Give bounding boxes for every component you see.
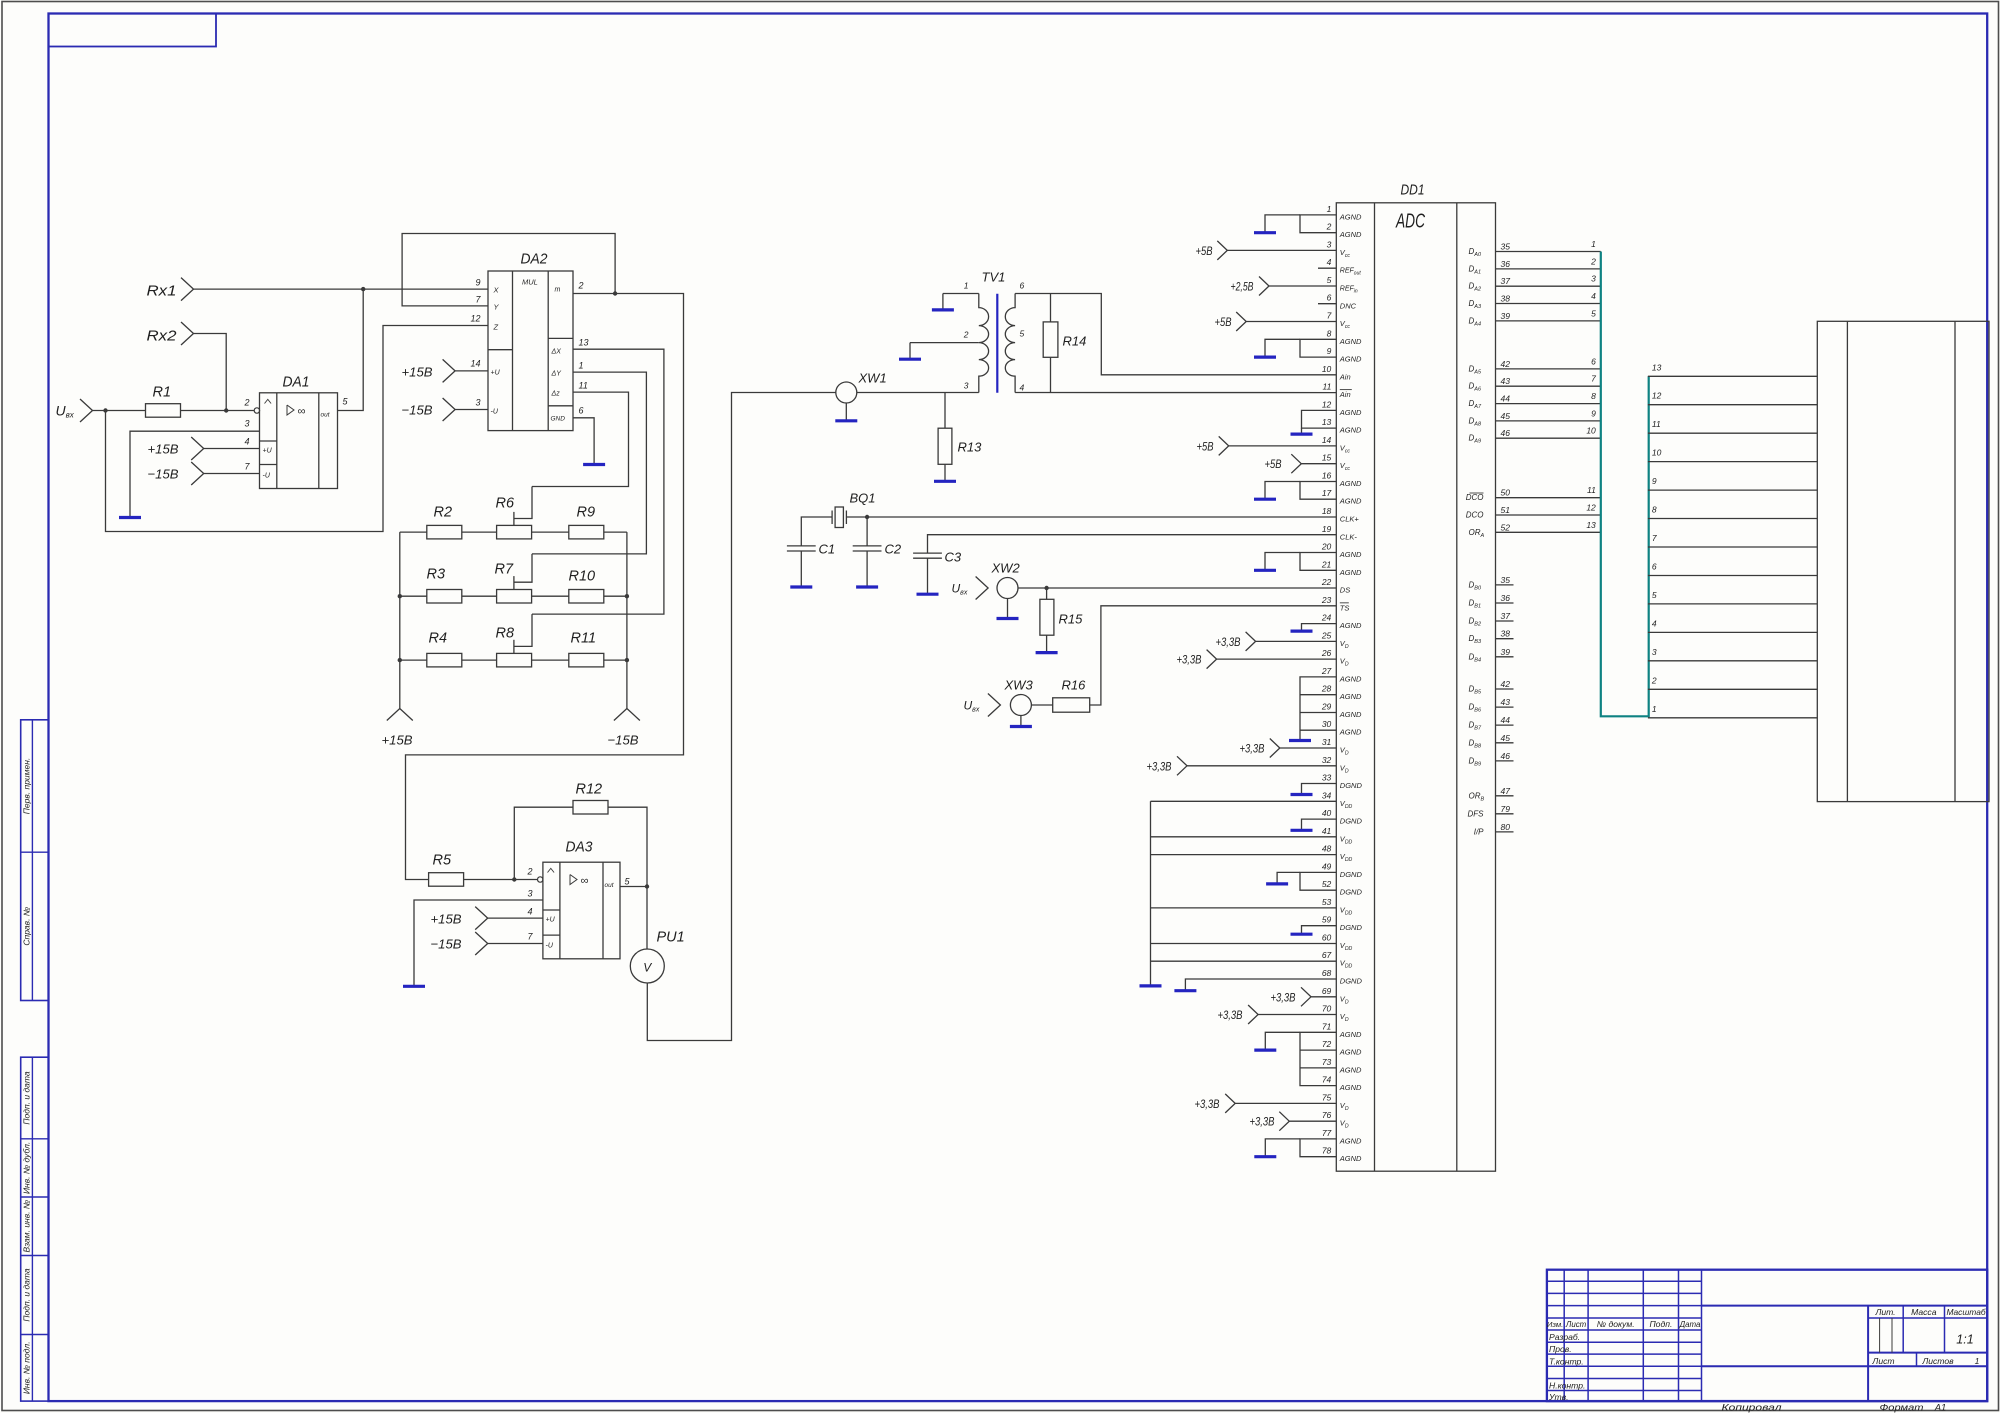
svg-text:AGND: AGND: [1339, 1154, 1362, 1163]
svg-text:+3,3В: +3,3В: [1216, 635, 1241, 649]
svg-text:6: 6: [1020, 281, 1025, 291]
svg-text:∞: ∞: [581, 875, 589, 887]
svg-text:+15В: +15В: [402, 365, 433, 380]
svg-text:AGND: AGND: [1339, 621, 1362, 630]
svg-text:R1: R1: [153, 385, 172, 401]
wire +15В to DA2 pin14: [455, 370, 488, 372]
svg-text:69: 69: [1322, 986, 1332, 996]
C3 top wire and CLK- line: [928, 535, 1337, 553]
svg-text:R5: R5: [433, 853, 452, 869]
svg-text:45: 45: [1501, 733, 1511, 743]
svg-text:Листов: Листов: [1921, 1356, 1954, 1366]
resistor R15: [1040, 599, 1054, 635]
svg-text:11: 11: [579, 381, 588, 391]
svg-text:TS: TS: [1340, 603, 1350, 612]
svg-text:Лист: Лист: [1565, 1320, 1587, 1329]
TV1 pin6 wire to Ain: [1015, 294, 1336, 375]
svg-text:12: 12: [1652, 391, 1662, 401]
svg-text:DA1: DA1: [283, 375, 310, 391]
node junction Rx2-R1: [224, 408, 228, 412]
svg-text:+2,5В: +2,5В: [1231, 280, 1254, 294]
op-amp DA3 body: [543, 862, 620, 959]
svg-text:CLK-: CLK-: [1340, 532, 1358, 541]
svg-text:out: out: [605, 882, 615, 889]
svg-text:75: 75: [1322, 1092, 1332, 1102]
svg-text:5: 5: [1327, 275, 1332, 285]
svg-text:CLK+: CLK+: [1340, 515, 1360, 524]
svg-text:+3,3В: +3,3В: [1218, 1008, 1243, 1022]
svg-text:2: 2: [963, 330, 969, 340]
svg-text:TV1: TV1: [982, 270, 1006, 285]
svg-text:DGND: DGND: [1340, 817, 1363, 826]
svg-text:AGND: AGND: [1339, 212, 1362, 221]
C3 bottom wire: [927, 558, 929, 593]
svg-text:9: 9: [475, 278, 480, 288]
ground at DA1 pin3: [119, 516, 141, 519]
svg-text:XW2: XW2: [991, 561, 1021, 576]
svg-text:AGND: AGND: [1339, 550, 1362, 559]
TV1 pin2 ground drop: [909, 343, 911, 359]
teal group bus: [1601, 252, 1649, 717]
input terminal -15В for DA2: [443, 398, 456, 421]
svg-text:m: m: [555, 287, 561, 294]
wire bus to connector (net 7): [1648, 546, 1817, 548]
ground at DA2 pin6: [583, 463, 605, 466]
svg-text:Лист: Лист: [1871, 1356, 1894, 1366]
svg-text:9: 9: [1591, 408, 1596, 418]
svg-text:R9: R9: [577, 505, 596, 521]
svg-text:∞: ∞: [298, 406, 306, 418]
wire R6-R9: [532, 531, 569, 533]
svg-text:Разраб.: Разраб.: [1549, 1332, 1580, 1342]
svg-text:47: 47: [1501, 786, 1511, 796]
R8 tap wire: [514, 614, 532, 646]
svg-text:79: 79: [1501, 804, 1511, 814]
svg-text:AGND: AGND: [1339, 674, 1362, 683]
svg-text:35: 35: [1501, 242, 1511, 252]
svg-text:Z: Z: [493, 323, 499, 332]
svg-text:-U: -U: [491, 409, 499, 416]
top-left additional graph box: [49, 14, 217, 47]
wire DD1 pin 51 to bus (net 12): [1496, 514, 1601, 516]
svg-text:48: 48: [1322, 844, 1332, 854]
right -15В rail: [626, 532, 628, 708]
TV1 pin2 wire: [910, 342, 979, 344]
capacitor C2: [853, 545, 882, 547]
node junction R15 top: [1044, 586, 1048, 590]
svg-text:Ain: Ain: [1339, 390, 1351, 399]
ground at TV1 pin2: [899, 358, 921, 361]
svg-text:DCO: DCO: [1466, 511, 1484, 520]
coax connector XW3: [1010, 695, 1031, 716]
svg-text:71: 71: [1322, 1021, 1332, 1031]
resistor R7 (FET-controlled): [497, 590, 532, 604]
svg-text:1: 1: [1327, 204, 1332, 214]
resistor R2: [427, 525, 462, 539]
wire DD1 pin 35 to bus (net 1): [1496, 251, 1601, 253]
svg-text:4: 4: [244, 437, 249, 447]
svg-text:+15В: +15В: [431, 912, 462, 927]
svg-text:AGND: AGND: [1339, 337, 1362, 346]
wire DD1 pin 39 to bus (net 5): [1496, 320, 1601, 322]
svg-text:GND: GND: [551, 416, 566, 423]
svg-text:11: 11: [1322, 382, 1331, 392]
node junction DA3 out / R12: [645, 884, 649, 888]
svg-text:Дата: Дата: [1679, 1320, 1701, 1329]
svg-text:−15В: −15В: [608, 733, 639, 748]
svg-text:C3: C3: [945, 550, 962, 565]
R15 bottom wire: [1046, 635, 1048, 651]
svg-text:+15В: +15В: [382, 733, 413, 748]
svg-text:DNC: DNC: [1340, 301, 1357, 310]
svg-text:26: 26: [1321, 648, 1332, 658]
svg-text:13: 13: [1586, 520, 1596, 530]
R13 top wire: [944, 393, 946, 429]
svg-text:+U: +U: [263, 448, 273, 455]
wire DD1 pin 43 to bus (net 7): [1496, 385, 1601, 387]
svg-text:18: 18: [1322, 506, 1332, 516]
wire row 2 left: [400, 595, 427, 597]
ADC DD1 body: [1336, 203, 1495, 1171]
DD1 pin67 VDD wire: [1151, 960, 1337, 962]
DA1 chevron symbol: [265, 399, 272, 403]
wire +5В to DD1 pin15: [1291, 454, 1301, 473]
svg-text:Изм.: Изм.: [1547, 1320, 1563, 1329]
svg-text:DFS: DFS: [1468, 809, 1485, 818]
svg-text:out: out: [321, 412, 331, 419]
svg-text:R7: R7: [495, 562, 514, 578]
wire DD1 pin 38 to bus (net 4): [1496, 303, 1601, 305]
voltmeter PU1: [630, 949, 664, 983]
svg-text:−15В: −15В: [148, 467, 179, 482]
svg-text:14: 14: [1322, 435, 1332, 445]
svg-text:24: 24: [1321, 613, 1332, 623]
svg-text:AGND: AGND: [1339, 479, 1362, 488]
input terminal -15В for DA1: [191, 462, 204, 485]
crystal BQ1 left plate: [831, 511, 833, 525]
svg-text:DA2: DA2: [521, 252, 548, 268]
right connector block: [1817, 321, 1989, 801]
svg-text:44: 44: [1501, 394, 1511, 404]
svg-text:PU1: PU1: [657, 930, 685, 946]
input terminal Rx2: [181, 322, 194, 345]
svg-text:15: 15: [1322, 453, 1332, 463]
wire BQ1 to DD1 CLK+: [846, 516, 1336, 518]
svg-text:19: 19: [1322, 524, 1332, 534]
XW2 ground stub: [1007, 599, 1009, 618]
ground at R13: [934, 480, 956, 483]
C2 bottom wire: [866, 551, 868, 586]
input terminal +15В for DA3: [475, 907, 488, 930]
svg-text:9: 9: [1327, 346, 1332, 356]
svg-text:3: 3: [1591, 274, 1596, 284]
svg-text:11: 11: [1587, 485, 1596, 495]
resistor R14: [1043, 322, 1058, 357]
VDD rail: [1150, 801, 1152, 985]
resistor R11: [569, 653, 604, 667]
wire +2,5В to DD1 pin5: [1259, 277, 1269, 296]
wire XW3 to R16: [1031, 704, 1052, 706]
DD1 pins 1-2 AGND to ground: [1300, 215, 1336, 233]
svg-text:DGND: DGND: [1340, 870, 1363, 879]
svg-text:13: 13: [1652, 362, 1662, 372]
svg-text:Инв. № дубл.: Инв. № дубл.: [22, 1142, 32, 1194]
svg-text:37: 37: [1501, 611, 1511, 621]
node rail right row3: [625, 658, 629, 662]
svg-text:R11: R11: [571, 631, 597, 647]
DD1 pin60 VDD wire: [1151, 943, 1337, 945]
DD1 pin4 stub: [1318, 267, 1336, 269]
ground at C3: [917, 593, 939, 596]
svg-text:AGND: AGND: [1339, 568, 1362, 577]
resistor R5: [429, 873, 464, 887]
wire C1 corner to BQ1: [801, 517, 832, 546]
svg-text:Формат: Формат: [1880, 1403, 1924, 1413]
svg-text:4: 4: [1652, 618, 1657, 628]
DD1 pin24 AGND to ground: [1302, 624, 1337, 632]
svg-text:AGND: AGND: [1339, 426, 1362, 435]
wire R4-R8: [462, 659, 497, 661]
resistor R4: [427, 653, 462, 667]
R14 bottom wire: [1050, 357, 1052, 392]
DA2 dz wire to R6 tap: [532, 392, 629, 486]
svg-text:4: 4: [1020, 383, 1025, 393]
svg-text:4: 4: [527, 907, 532, 917]
svg-text:R4: R4: [429, 631, 448, 647]
svg-text:Утв.: Утв.: [1548, 1392, 1569, 1402]
svg-text:45: 45: [1501, 411, 1511, 421]
DA2 dX wire to R8 tap: [532, 349, 664, 614]
svg-text:38: 38: [1501, 294, 1511, 304]
svg-text:ΔX: ΔX: [551, 349, 562, 356]
svg-text:2: 2: [1326, 222, 1332, 232]
DD1 pin34 VDD wire: [1151, 800, 1337, 802]
TV1 primary pin1 wire: [943, 293, 979, 295]
DA2 dY wire to R7 tap: [532, 372, 646, 554]
svg-text:4: 4: [1327, 257, 1332, 267]
wire bus to connector (net 13): [1648, 375, 1817, 377]
wire -15В to DA3 pin7: [488, 943, 543, 945]
node junction DA2 output feedback: [613, 291, 617, 295]
wire bus to connector (net 6): [1648, 575, 1817, 577]
DD1 pins 77-78 AGND to ground: [1300, 1139, 1336, 1157]
svg-text:DS: DS: [1340, 586, 1350, 595]
input terminal Uвх (main): [80, 399, 93, 422]
resistor R8 (FET-controlled): [497, 653, 532, 667]
svg-text:Взам. инв. №: Взам. инв. №: [22, 1200, 32, 1253]
svg-text:77: 77: [1322, 1128, 1332, 1138]
svg-text:17: 17: [1322, 488, 1332, 498]
DD1 pin68 DGND to ground: [1185, 979, 1336, 990]
terminal fork -15В rail: [614, 709, 640, 721]
svg-text:8: 8: [1652, 505, 1657, 515]
svg-text:X: X: [493, 286, 500, 295]
svg-text:31: 31: [1322, 737, 1332, 747]
DD1 pins 8-9 AGND to ground: [1300, 339, 1336, 357]
R7 tap wire: [514, 554, 532, 582]
wire Rx1 to DA2 X: [194, 288, 489, 290]
svg-text:AGND: AGND: [1339, 497, 1362, 506]
svg-text:+3,3В: +3,3В: [1147, 759, 1172, 773]
wire +3,3В to DD1 pin25: [1246, 632, 1256, 651]
svg-text:68: 68: [1322, 968, 1332, 978]
svg-text:Δz: Δz: [551, 391, 561, 398]
coax connector XW2: [997, 578, 1018, 599]
resistor R16: [1053, 698, 1090, 712]
svg-text:12: 12: [1586, 503, 1596, 513]
svg-text:+U: +U: [491, 370, 501, 377]
wire bus to connector (net 8): [1648, 518, 1817, 520]
C2 top wire: [866, 517, 868, 546]
svg-text:5: 5: [1591, 308, 1596, 318]
svg-text:16: 16: [1322, 471, 1332, 481]
svg-text:12: 12: [1322, 399, 1332, 409]
svg-text:1: 1: [1652, 704, 1657, 714]
DA2 output wire (pin2 m): [406, 294, 684, 880]
wire row 1 right: [604, 531, 627, 533]
wire R3-R7: [462, 595, 497, 597]
svg-text:R3: R3: [427, 567, 446, 583]
wire +5В to DD1 pin3: [1217, 241, 1227, 260]
wire row 1 left: [400, 531, 427, 533]
svg-text:37: 37: [1501, 276, 1511, 286]
svg-text:30: 30: [1322, 719, 1332, 729]
terminal fork +15В rail: [387, 709, 413, 721]
node rail left row2: [398, 594, 402, 598]
svg-text:23: 23: [1321, 595, 1332, 605]
svg-text:7: 7: [1327, 311, 1332, 321]
TV1 core: [996, 294, 998, 393]
DA3 inverting input circle: [538, 877, 543, 882]
DD1 pins 71-74 AGND to ground: [1300, 1032, 1336, 1085]
wire +3,3В to DD1 pin26: [1207, 650, 1217, 669]
wire Uвх to R1: [93, 410, 146, 412]
svg-text:4: 4: [1591, 291, 1596, 301]
svg-text:7: 7: [1591, 374, 1596, 384]
DD1 pin53 VDD wire: [1151, 907, 1337, 909]
svg-text:8: 8: [1327, 328, 1332, 338]
DD1 pin48 VDD wire: [1151, 854, 1337, 856]
svg-text:3: 3: [527, 889, 532, 899]
input terminal Rx1: [181, 278, 194, 301]
resistor R10: [569, 590, 604, 604]
R8 gate tap: [513, 640, 515, 654]
svg-text:32: 32: [1322, 755, 1332, 765]
svg-text:Подп. и дата: Подп. и дата: [22, 1268, 32, 1321]
svg-text:Т.контр.: Т.контр.: [1549, 1357, 1584, 1367]
wire bus to connector (net 9): [1648, 489, 1817, 491]
svg-text:34: 34: [1322, 790, 1332, 800]
svg-text:72: 72: [1322, 1039, 1332, 1049]
svg-text:C2: C2: [885, 542, 902, 557]
R12 feedback left wire: [514, 807, 573, 879]
R6 gate tap: [513, 512, 515, 526]
ground at R15: [1036, 651, 1058, 654]
svg-text:3: 3: [1327, 239, 1332, 249]
svg-text:33: 33: [1322, 773, 1332, 783]
node rail left row3: [398, 658, 402, 662]
svg-text:5: 5: [1652, 590, 1657, 600]
DD1 pin33 DGND to ground: [1302, 784, 1337, 795]
wire bus to connector (net 1): [1648, 717, 1817, 719]
svg-text:AGND: AGND: [1339, 1083, 1362, 1092]
wire R1 to DA1 pin2: [181, 410, 255, 412]
svg-text:6: 6: [579, 406, 584, 416]
wire row 3 right: [604, 659, 627, 661]
wire DD1 pin 42 to bus (net 6): [1496, 368, 1601, 370]
svg-text:Ain: Ain: [1339, 372, 1351, 381]
wire bus to connector (net 3): [1648, 660, 1817, 662]
svg-text:13: 13: [1322, 417, 1332, 427]
svg-text:R2: R2: [434, 505, 453, 521]
svg-text:6: 6: [1327, 293, 1332, 303]
svg-text:DCO: DCO: [1466, 493, 1484, 502]
wire DD1 pin 37 to bus (net 3): [1496, 285, 1601, 287]
resistor R9: [569, 525, 604, 539]
wire +5В to DD1 pin7: [1236, 312, 1246, 331]
input terminal +15В for DA2: [443, 359, 456, 382]
DD1 pin40 DGND to ground: [1302, 819, 1337, 830]
svg-text:+5В: +5В: [1196, 244, 1213, 258]
svg-text:67: 67: [1322, 950, 1332, 960]
svg-text:R6: R6: [496, 496, 515, 512]
svg-text:+5В: +5В: [1215, 315, 1232, 329]
DD1 pin41 VDD wire: [1151, 836, 1337, 838]
svg-text:№ докум.: № докум.: [1597, 1319, 1635, 1329]
DA3 output wire: [620, 887, 647, 950]
svg-text:+3,3В: +3,3В: [1195, 1097, 1220, 1111]
R15 top wire: [1046, 588, 1048, 599]
svg-text:AGND: AGND: [1339, 1048, 1362, 1057]
svg-text:5: 5: [1020, 329, 1025, 339]
TV1 secondary winding: [1005, 294, 1015, 393]
DD1 pins 16-17 AGND to ground: [1300, 482, 1336, 500]
svg-text:AGND: AGND: [1339, 408, 1362, 417]
svg-text:20: 20: [1321, 542, 1332, 552]
input terminal Uвх XW2: [976, 577, 989, 600]
wire +15В to DA3 pin4: [488, 917, 543, 919]
svg-text:36: 36: [1501, 259, 1511, 269]
svg-text:Пров.: Пров.: [1549, 1344, 1572, 1354]
TV1 pin1 ground drop: [942, 294, 944, 309]
R12 feedback right wire: [608, 807, 647, 886]
svg-text:11: 11: [1652, 419, 1661, 429]
left margin column group 1: [21, 720, 49, 1001]
ground at DA3 pin3: [403, 985, 425, 988]
DD1 pins 27-30 AGND to ground: [1300, 677, 1336, 741]
op-amp DA1 body: [260, 393, 338, 489]
svg-text:14: 14: [470, 359, 480, 369]
svg-text:3: 3: [244, 419, 249, 429]
DA1 amplifier triangle: [287, 405, 294, 415]
ground at XW3: [1010, 725, 1032, 728]
wire row 2 right: [604, 595, 627, 597]
svg-text:1: 1: [579, 361, 584, 371]
svg-text:R13: R13: [958, 440, 983, 455]
svg-text:73: 73: [1322, 1057, 1332, 1067]
svg-text:Масса: Масса: [1911, 1307, 1937, 1317]
wire DA1 output feedback to Rx1 line: [338, 289, 364, 410]
svg-text:52: 52: [1322, 879, 1332, 889]
svg-text:+U: +U: [546, 917, 556, 924]
svg-text:76: 76: [1322, 1110, 1332, 1120]
svg-text:−15В: −15В: [431, 937, 462, 952]
wire row 3 left: [400, 659, 427, 661]
svg-text:1: 1: [1591, 239, 1596, 249]
left +15В rail: [399, 532, 401, 708]
wire +3,3В to DD1 pin69: [1301, 987, 1311, 1006]
wire XW1 to TV1 pin3: [857, 392, 979, 394]
